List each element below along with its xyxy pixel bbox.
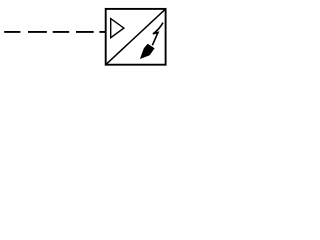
diagonal line inside box [106, 9, 165, 64]
wire: dashed input line [4, 31, 105, 33]
triangle: input amplifier symbol [111, 19, 124, 38]
lightning bolt: filled arrowhead [140, 44, 155, 59]
lightning bolt: surge arrow shaft [152, 23, 163, 46]
component box: surge protective device outline [106, 9, 166, 65]
